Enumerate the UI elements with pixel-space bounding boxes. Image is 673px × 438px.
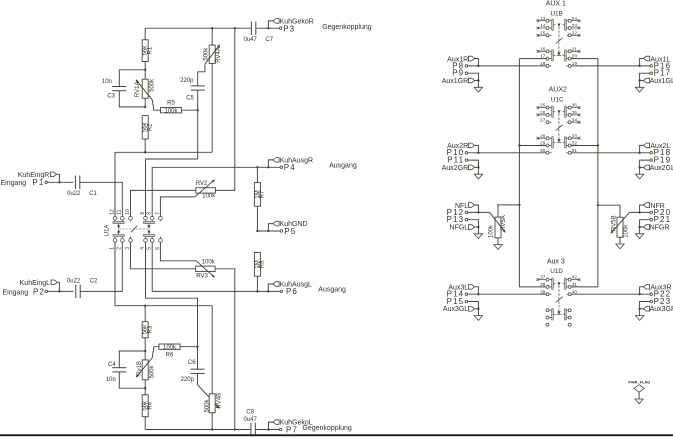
svg-text:100k: 100k: [624, 224, 630, 238]
connector P2: [3, 287, 48, 296]
ground NFGL: [477, 227, 479, 234]
svg-text:17: 17: [540, 54, 546, 59]
svg-text:39: 39: [540, 289, 546, 294]
global label KuhGekoR: [268, 18, 313, 28]
svg-text:35: 35: [572, 110, 578, 115]
wire U1C pin32 to right bus: [571, 145, 598, 147]
svg-text:32: 32: [572, 141, 578, 146]
global label Aux1R: [447, 56, 478, 66]
svg-text:14: 14: [540, 23, 546, 28]
capacitor C5: [180, 64, 205, 159]
connector P22: [650, 290, 671, 299]
pin 34 U1C: [571, 117, 580, 123]
junction P1/flag: [58, 181, 60, 183]
pin 15 U1B: [537, 30, 547, 36]
svg-text:26: 26: [540, 110, 546, 115]
wire P9 to ground: [468, 73, 479, 80]
junction P4/flag stub: [267, 166, 269, 168]
junction P2/flag: [58, 290, 60, 292]
capacitor C2: [67, 278, 98, 298]
svg-text:0u47: 0u47: [244, 37, 258, 43]
resistor R2: [142, 116, 153, 153]
wire P17 to ground: [640, 73, 650, 80]
junction left bus / pin29: [518, 144, 520, 146]
global label KuhAusgL: [268, 281, 312, 291]
capacitor C4: [106, 351, 146, 388]
svg-text:Aux3GL: Aux3GL: [443, 306, 468, 313]
pin 29 U1C: [540, 141, 546, 146]
svg-text:P4: P4: [284, 163, 296, 172]
pin 22 U1B: [571, 30, 580, 36]
junction P20/flag: [638, 211, 640, 213]
wire U1C pin29 to left bus: [519, 145, 546, 147]
junction P22/flag: [638, 293, 640, 295]
wire pin9 to R5/C5 node: [146, 159, 198, 217]
svg-text:RV5B: RV5B: [612, 215, 618, 231]
svg-text:AUX2: AUX2: [549, 86, 567, 93]
svg-text:0u47: 0u47: [244, 417, 258, 423]
svg-text:RV3: RV3: [196, 274, 208, 280]
connector P23: [650, 297, 671, 306]
wire pin3 to RV3 left: [131, 242, 196, 269]
svg-text:RV4B: RV4B: [216, 393, 222, 409]
svg-text:R6: R6: [166, 353, 174, 359]
svg-text:8: 8: [147, 212, 153, 215]
pin 38 U1D: [540, 282, 546, 287]
pin 13 U1B: [537, 16, 547, 22]
resistor R6: [159, 344, 198, 359]
global label KuhAusgR: [268, 157, 313, 167]
pin 23 U1B: [571, 23, 580, 29]
svg-text:P11: P11: [447, 156, 464, 165]
wire C2 to pin2: [80, 242, 122, 291]
wire RV3 right to bottom bus riser: [215, 269, 235, 430]
potentiometer RV5B: [598, 205, 630, 238]
junction Aux3GR/ground: [638, 308, 640, 310]
ground Aux2GR: [477, 167, 479, 174]
svg-text:R7: R7: [259, 190, 265, 198]
connector P9: [452, 69, 467, 78]
junction top bus / RV2 riser: [234, 27, 236, 29]
svg-text:KuhEingL: KuhEingL: [20, 280, 50, 287]
svg-text:30: 30: [540, 148, 546, 153]
svg-text:100k: 100k: [202, 260, 216, 266]
svg-text:P2: P2: [33, 287, 45, 296]
global label KuhEingL: [20, 280, 60, 291]
wire P15 to ground: [468, 302, 479, 309]
connector P17: [650, 69, 671, 78]
wire top feedback bus R: [145, 27, 251, 29]
connector P3: [279, 24, 295, 33]
pin 28 U1C: [537, 133, 547, 139]
ground Aux2GL: [639, 167, 641, 174]
switch U1B: [546, 19, 571, 67]
global label Aux1GL: [640, 78, 673, 85]
junction P12/flag: [477, 211, 479, 213]
svg-text:220p: 220p: [181, 377, 195, 383]
svg-text:500k: 500k: [205, 398, 211, 412]
svg-text:C4: C4: [108, 362, 116, 368]
connector P6: [280, 287, 298, 296]
wire P20 to RV5B wiper: [629, 211, 650, 213]
potentiometer RV2: [195, 180, 216, 200]
potentiometer RV3: [196, 260, 216, 280]
ground Aux3GR: [639, 309, 641, 316]
resistor R3: [142, 306, 153, 351]
sheet border: [0, 434, 673, 436]
svg-text:C7: C7: [265, 37, 273, 43]
potentiometer RV4A: [204, 28, 222, 152]
wire U1D pin40 to P22: [571, 293, 650, 295]
svg-text:R1: R1: [148, 46, 154, 54]
resistor R4: [142, 388, 153, 429]
svg-text:33: 33: [572, 133, 578, 138]
svg-text:28: 28: [540, 133, 546, 138]
pin 19 U1B: [572, 61, 578, 66]
global label NFR: [640, 203, 665, 213]
wire right bus corner to U1D pin41: [571, 286, 598, 288]
junction bottom bus / RV4B: [211, 428, 213, 430]
resistor R1: [142, 28, 153, 70]
connector P11: [447, 156, 467, 165]
pin 18 U1B: [540, 61, 546, 66]
pin 26 U1C: [537, 110, 547, 116]
global label NFGR: [640, 224, 670, 231]
svg-text:R8: R8: [259, 260, 265, 268]
global label Aux1GR: [442, 78, 479, 85]
junction right bus / pin32: [597, 144, 599, 146]
svg-text:C8: C8: [246, 409, 254, 415]
global label KuhGekoL: [269, 420, 313, 430]
pin 40 U1D: [572, 289, 578, 294]
svg-text:RV1A: RV1A: [135, 82, 141, 98]
junction NFGR/ground: [638, 226, 640, 228]
wire left bus corner to U1D pin38: [519, 286, 546, 288]
wire U1B pin19 to P16: [571, 65, 650, 67]
wire P13 to ground: [468, 220, 479, 227]
capacitor C3: [102, 70, 145, 107]
pin 24 U1B: [571, 16, 580, 22]
svg-text:38: 38: [540, 282, 546, 287]
wire P19 to ground: [640, 160, 650, 167]
global label KuhEingR: [18, 172, 60, 182]
junction R3 top: [144, 305, 146, 307]
wire U1C pin31 to P18: [571, 152, 650, 154]
connector P16: [650, 61, 671, 70]
svg-text:22: 22: [572, 30, 578, 35]
junction P3/flag stub: [267, 27, 269, 29]
potentiometer RV5A: [489, 205, 520, 238]
ground PWR_FLAG: [635, 399, 643, 404]
pin 35 U1C: [571, 110, 580, 116]
ground RV5B: [619, 237, 621, 244]
svg-text:500k: 500k: [204, 47, 210, 61]
svg-text:18: 18: [540, 61, 546, 66]
svg-text:P6: P6: [286, 287, 298, 296]
svg-text:R5: R5: [167, 100, 175, 106]
svg-text:U1D: U1D: [550, 268, 563, 275]
pin 41 U1D: [572, 282, 578, 287]
power flag PWR_FLAG: [628, 379, 650, 399]
global label KuhGND: [268, 221, 307, 231]
junction R2 bottom / mid wire: [144, 151, 146, 153]
svg-text:Aux2GR: Aux2GR: [442, 165, 468, 172]
wire U1B pin17 to left bus: [519, 58, 546, 60]
svg-text:34: 34: [572, 117, 578, 122]
pin 36 U1C: [571, 103, 580, 109]
junction P5/R7/R8: [256, 230, 258, 232]
connector P14: [447, 290, 468, 299]
ground NFGR: [639, 227, 641, 234]
resistor R5: [161, 100, 198, 114]
capacitor C1: [67, 176, 98, 197]
resistor R7: [254, 167, 265, 231]
svg-text:40: 40: [572, 289, 578, 294]
pin 39 U1D: [540, 289, 546, 294]
wire pin1 to RV4B riser: [115, 242, 212, 306]
svg-text:Aux1GR: Aux1GR: [442, 78, 468, 85]
wire P14 to U1D pin39: [468, 293, 546, 295]
potentiometer RV1B: [136, 347, 159, 389]
svg-text:23: 23: [572, 23, 578, 28]
wire mid node to RV4A bottom: [115, 151, 212, 153]
svg-text:19: 19: [572, 61, 578, 66]
svg-text:U1C: U1C: [551, 97, 564, 104]
junction P14/flag: [477, 293, 479, 295]
wire left bus: [518, 59, 520, 288]
global label Aux2GL: [640, 165, 673, 172]
wire bottom feedback bus L: [145, 429, 251, 431]
wire pin6 to RV3 wiper: [160, 242, 196, 261]
wire P23 to ground: [640, 302, 650, 309]
svg-text:4: 4: [140, 247, 146, 250]
capacitor C8: [244, 409, 258, 436]
svg-text:20: 20: [572, 54, 578, 59]
svg-text:6: 6: [155, 247, 161, 250]
svg-text:100k: 100k: [164, 109, 178, 115]
svg-text:Aux3GR: Aux3GR: [650, 306, 673, 313]
svg-text:U1A: U1A: [104, 225, 110, 237]
pin 25 U1C: [537, 103, 547, 109]
svg-text:500k: 500k: [150, 364, 156, 378]
junction Aux1GR/ground: [477, 79, 479, 81]
wire P8 to U1B pin18: [468, 65, 546, 67]
svg-text:Aux1GL: Aux1GL: [650, 78, 673, 85]
svg-text:R4: R4: [148, 401, 154, 409]
svg-text:Eingang: Eingang: [3, 290, 29, 297]
svg-text:P1: P1: [32, 178, 44, 187]
wire U1B pin20 to right bus: [571, 58, 598, 60]
svg-text:C6: C6: [188, 360, 196, 366]
junction P6/R8: [256, 290, 258, 292]
junction Aux1GL/ground: [638, 79, 640, 81]
potentiometer RV1A: [135, 70, 160, 110]
global label Aux3L: [448, 285, 478, 295]
svg-text:10: 10: [125, 209, 131, 215]
wire P12 to RV5A wiper: [468, 211, 490, 213]
svg-text:C1: C1: [89, 191, 97, 197]
connector P7: [279, 425, 298, 434]
svg-text:NFGR: NFGR: [650, 224, 670, 231]
junction P16/flag: [638, 65, 640, 67]
junction right bus / RV5B: [597, 204, 599, 206]
wire P21 to ground: [640, 220, 650, 227]
pin 31 U1C: [572, 148, 578, 153]
svg-text:37: 37: [540, 275, 546, 280]
svg-text:2: 2: [117, 247, 123, 250]
svg-text:12: 12: [109, 209, 115, 215]
wire pin10 to RV2 left: [131, 190, 196, 216]
junction R5/C5 node: [197, 109, 199, 111]
junction R1/C3/RV1A node: [144, 69, 146, 71]
pin 42 U1D: [571, 275, 580, 281]
svg-text:21: 21: [572, 46, 578, 51]
wire P5 stub: [257, 230, 280, 232]
svg-text:100k: 100k: [489, 224, 495, 238]
junction P18/flag: [638, 152, 640, 154]
svg-text:5: 5: [147, 247, 153, 250]
junction P10/flag: [477, 152, 479, 154]
svg-text:25: 25: [540, 103, 546, 108]
pin 30 U1C: [540, 148, 546, 153]
svg-text:36: 36: [572, 103, 578, 108]
svg-text:100k: 100k: [163, 345, 177, 351]
connector P10: [447, 148, 468, 157]
svg-text:Eingang: Eingang: [1, 180, 27, 187]
capacitor C6: [181, 347, 205, 385]
pin 16 U1B: [537, 46, 547, 52]
global label Aux2L: [640, 143, 671, 153]
svg-text:13: 13: [540, 16, 546, 21]
svg-text:R3: R3: [148, 325, 154, 333]
svg-text:P17: P17: [654, 69, 672, 78]
global label NFL: [455, 203, 478, 213]
junction Aux2GR/ground: [477, 166, 479, 168]
junction top bus / RV4A: [211, 27, 213, 29]
svg-text:P13: P13: [447, 215, 465, 224]
wire pin8 to P4: [152, 167, 280, 216]
junction P8/flag: [477, 65, 479, 67]
wire pin7 to RV2 wiper: [160, 197, 195, 217]
svg-text:P21: P21: [654, 215, 672, 224]
pin 17 U1B: [540, 54, 546, 59]
junction bottom bus / RV3 riser: [234, 428, 236, 430]
connector P1: [1, 178, 48, 187]
switch U1A: [113, 216, 162, 242]
svg-text:15: 15: [540, 30, 546, 35]
junction Aux2GL/ground: [638, 166, 640, 168]
svg-text:Ausgang: Ausgang: [318, 287, 346, 294]
switch U1C: [546, 106, 571, 154]
svg-text:C5: C5: [186, 96, 194, 102]
svg-text:P19: P19: [654, 156, 672, 165]
connector P13: [447, 215, 468, 224]
wire C7 to P3: [256, 27, 279, 29]
svg-text:RV4A: RV4A: [216, 47, 222, 63]
svg-text:0u22: 0u22: [67, 191, 81, 197]
svg-text:24: 24: [572, 16, 578, 21]
ground Aux1GR: [477, 81, 479, 88]
svg-text:16: 16: [540, 46, 546, 51]
pin 27 U1C: [540, 117, 546, 122]
pin 37 U1D: [537, 275, 547, 281]
svg-text:P7: P7: [286, 425, 298, 434]
svg-text:500k: 500k: [149, 78, 155, 92]
svg-text:220p: 220p: [180, 78, 194, 84]
svg-text:7: 7: [155, 212, 161, 215]
wire C8 to P7: [255, 429, 279, 431]
switch U1D: [546, 278, 571, 326]
wire P2 to C2: [48, 290, 74, 292]
wire P1 to C1: [48, 181, 74, 183]
junction P6/flag stub: [267, 290, 269, 292]
global label Aux2GR: [442, 165, 479, 172]
wire right bus: [597, 59, 599, 288]
ground Aux1GL: [639, 81, 641, 88]
svg-text:U1B: U1B: [550, 11, 562, 18]
pin 33 U1C: [571, 133, 580, 139]
junction left bus / RV5A: [518, 204, 520, 206]
wire P11 to ground: [468, 160, 479, 167]
svg-text:0u22: 0u22: [67, 278, 81, 284]
resistor R8: [254, 253, 265, 292]
svg-text:Gegenkopplung: Gegenkopplung: [302, 425, 352, 432]
pin 21 U1B: [571, 46, 580, 52]
svg-text:9: 9: [140, 212, 146, 215]
svg-text:RV5A: RV5A: [501, 215, 507, 231]
connector P5: [280, 227, 296, 236]
wire RV2 right to top bus riser: [215, 28, 234, 190]
junction NFGL/ground: [477, 226, 479, 228]
global label Aux3R: [640, 285, 672, 295]
svg-text:10n: 10n: [106, 377, 116, 383]
svg-text:10n: 10n: [102, 79, 112, 85]
svg-text:C3: C3: [107, 93, 115, 99]
connector P4: [280, 163, 296, 172]
global label Aux2R: [447, 143, 478, 153]
svg-text:29: 29: [540, 141, 546, 146]
svg-text:Aux 3: Aux 3: [547, 258, 565, 265]
svg-text:C2: C2: [90, 278, 98, 284]
junction RV1A/C3/R2 node: [144, 106, 146, 108]
global label Aux3GL: [443, 306, 478, 313]
svg-text:Gegenkopplung: Gegenkopplung: [322, 24, 372, 31]
junction P4/R7: [256, 166, 258, 168]
svg-text:AUX 1: AUX 1: [546, 1, 566, 8]
pin 14 U1B: [537, 23, 547, 29]
pin 20 U1B: [572, 54, 578, 59]
svg-text:11: 11: [117, 209, 123, 214]
connector P21: [650, 215, 671, 224]
svg-text:1: 1: [109, 247, 115, 250]
junction Aux3GL/ground: [477, 308, 479, 310]
connector P18: [650, 148, 671, 157]
svg-text:PWR_FLAG: PWR_FLAG: [628, 379, 650, 384]
pin 32 U1C: [572, 141, 578, 146]
svg-text:P9: P9: [452, 69, 464, 78]
global label Aux1L: [640, 56, 671, 66]
svg-text:42: 42: [572, 275, 578, 280]
wire pin5 to P6: [152, 242, 280, 291]
junction RV1B/C4/R4 node: [144, 387, 146, 389]
svg-text:Ausgang: Ausgang: [329, 163, 357, 170]
junction R6/C6 node: [196, 346, 198, 348]
svg-text:RV2: RV2: [196, 181, 208, 187]
ground Aux3GL: [477, 309, 479, 316]
wire C1 to pin11: [80, 182, 123, 216]
connector P19: [650, 156, 671, 165]
svg-text:3: 3: [125, 247, 131, 250]
